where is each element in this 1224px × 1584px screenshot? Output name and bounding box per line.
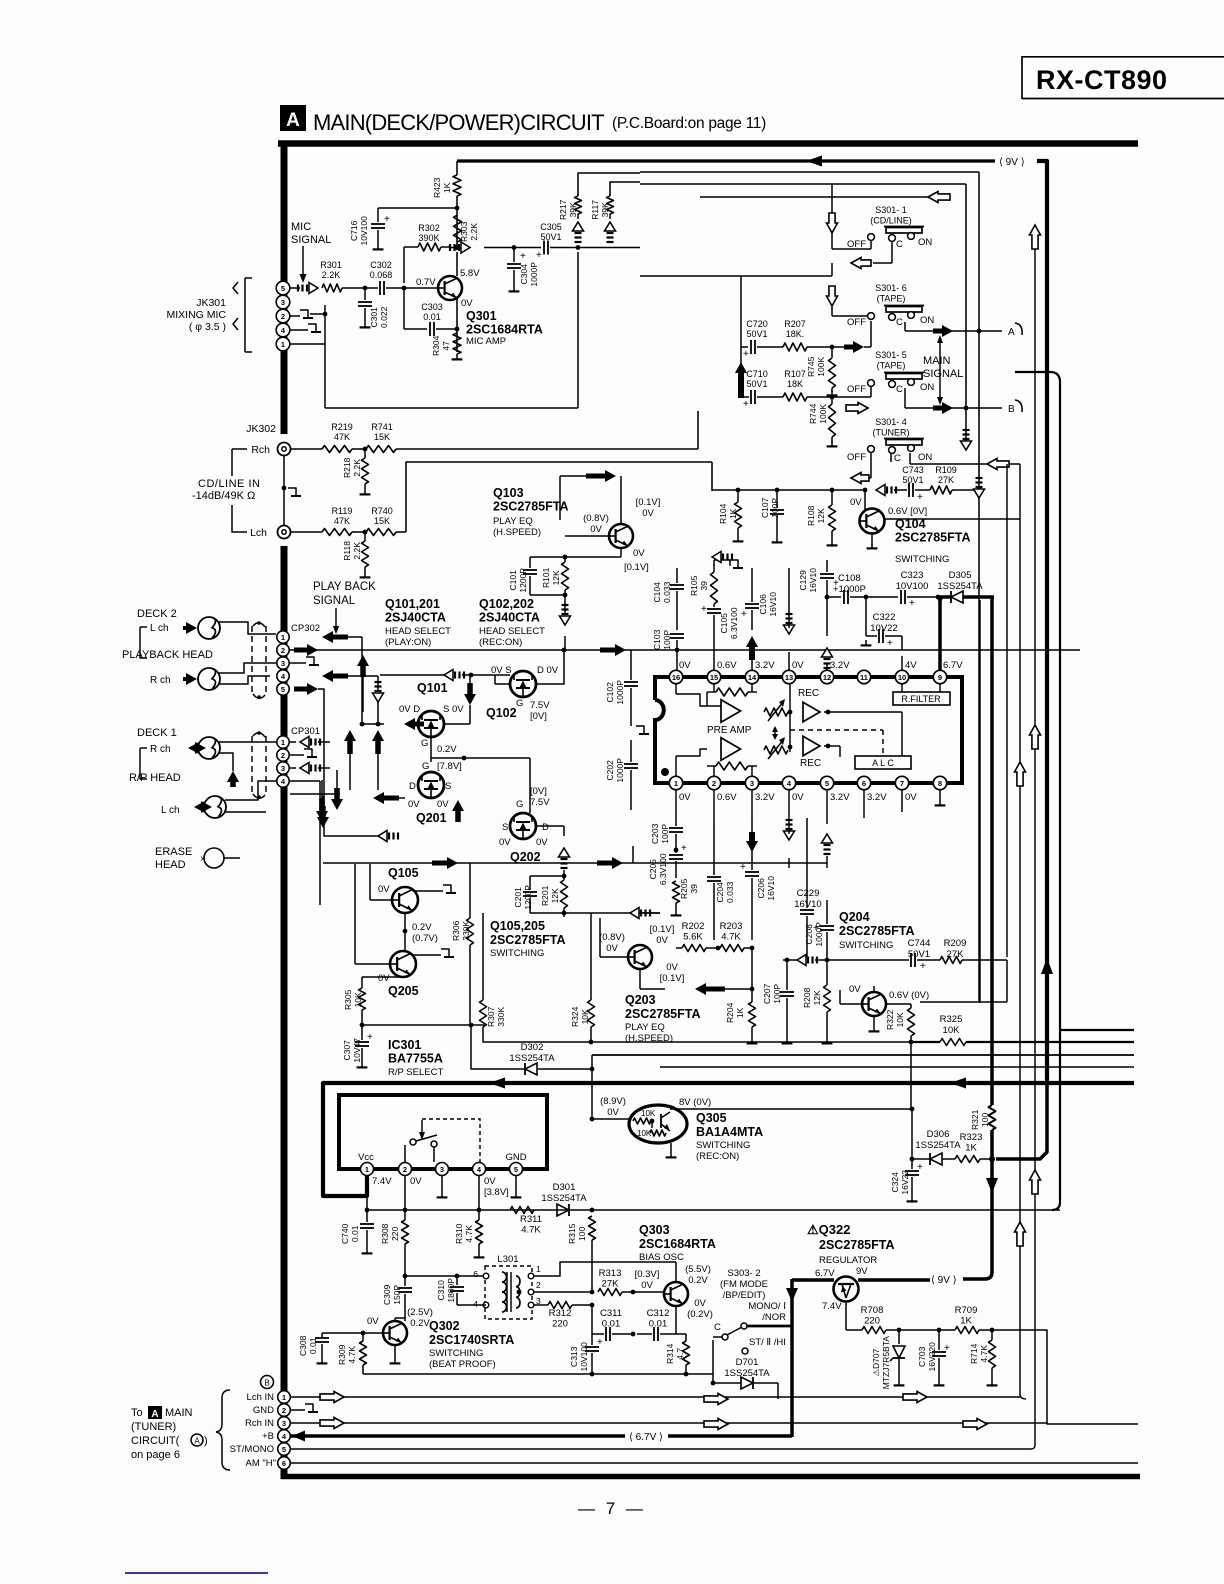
svg-text:10K: 10K [895, 1012, 905, 1027]
capacitor C311 0.01 [592, 1308, 635, 1341]
bus x1020 vertical [1020, 464, 1026, 1399]
thick arrow up head sel [357, 655, 369, 712]
svg-text:0.2V: 0.2V [688, 1275, 708, 1286]
resistor 10K lower q305 [650, 1121, 666, 1136]
svg-text:C303: C303 [421, 302, 443, 312]
svg-text:PLAY EQ: PLAY EQ [625, 1022, 665, 1033]
resistor R209 27K [940, 938, 1007, 999]
svg-text:1K: 1K [960, 1316, 972, 1327]
hatched arrow up R117 [605, 222, 616, 242]
thick arrow down c206 [746, 832, 758, 852]
node Q301 collector [455, 245, 460, 250]
wire pin2 down [403, 1176, 408, 1220]
wire d701 right [777, 1383, 779, 1399]
svg-text:MTZJ7R5BTA: MTZJ7R5BTA [881, 1336, 891, 1390]
svg-text:R744: R744 [808, 403, 818, 424]
label Q305 block [696, 1111, 763, 1162]
svg-text:8V (0V): 8V (0V) [679, 1097, 711, 1108]
leaf switch arrow [419, 1120, 425, 1140]
svg-text:C322: C322 [873, 612, 896, 623]
svg-text:Q101,201: Q101,201 [385, 597, 440, 611]
wire S301-4 C drop [890, 453, 892, 462]
wire Lch up to row462 [406, 462, 712, 532]
rec amp upper [803, 702, 820, 722]
svg-text:C301: C301 [369, 307, 379, 328]
switch box pin 4 [473, 1163, 486, 1176]
svg-text:OFF: OFF [847, 239, 866, 250]
IC302 pin 7 [895, 776, 908, 789]
wire A row [905, 322, 1002, 331]
wire x912 down [910, 1109, 915, 1161]
svg-text:1K: 1K [965, 1143, 977, 1154]
label 0.3V [635, 1269, 660, 1291]
svg-text:Q103: Q103 [493, 486, 524, 500]
node q201 gate [431, 756, 530, 761]
svg-text:(8.9V): (8.9V) [600, 1096, 626, 1107]
svg-text:+: + [520, 251, 526, 262]
arrow mic signal down [300, 246, 307, 283]
svg-text:13: 13 [785, 673, 793, 682]
resistor R306 330K [451, 875, 474, 1025]
svg-text:R708: R708 [861, 1305, 884, 1316]
svg-text:0.022: 0.022 [379, 306, 389, 328]
node B junction [964, 406, 969, 411]
bus 9V top horizontal [457, 159, 995, 162]
svg-text:3: 3 [750, 779, 754, 788]
svg-text:2.2K: 2.2K [352, 542, 362, 560]
svg-text:C104: C104 [652, 582, 662, 603]
wire q102 drain up [536, 648, 566, 684]
capacitor C105 6.3V100 [701, 604, 739, 670]
wire x980 long [916, 600, 980, 1003]
wire x470 to row863 [469, 863, 471, 875]
svg-text:+: + [536, 250, 542, 261]
hatched arrow down R101 [560, 600, 571, 648]
svg-text:R745: R745 [806, 356, 816, 377]
svg-text:SWITCHING: SWITCHING [429, 1348, 483, 1359]
svg-text:2: 2 [403, 1165, 407, 1174]
svg-text:Q105,205: Q105,205 [490, 919, 545, 933]
wire row 1056 [592, 1054, 1134, 1056]
svg-text:R ch: R ch [150, 744, 171, 755]
svg-text:SIGNAL: SIGNAL [291, 234, 331, 246]
wires head2R [219, 663, 276, 684]
svg-text:C204: C204 [715, 882, 725, 903]
svg-text:R217: R217 [558, 199, 568, 220]
fet Q201 [418, 772, 444, 798]
capacitor C102 1000P [605, 650, 649, 734]
capacitor C310 1800P [436, 1276, 486, 1305]
wire row 863 right [632, 846, 634, 863]
label 0.8V Q103 [583, 513, 609, 535]
svg-text:4.7K: 4.7K [464, 1225, 474, 1243]
svg-text:(TAPE): (TAPE) [877, 361, 906, 371]
svg-text:(FM MODE: (FM MODE [720, 1279, 768, 1290]
connector CP302 pin2 [277, 644, 289, 656]
open arrow up x1020 mid [1015, 762, 1026, 786]
svg-text:4.7K: 4.7K [347, 1346, 357, 1364]
label CP302 [291, 623, 320, 634]
svg-text:L301: L301 [497, 1254, 518, 1265]
label Q202 [510, 850, 541, 864]
svg-text:50V1: 50V1 [746, 379, 767, 389]
svg-text:+: + [743, 349, 749, 360]
wire mic return vertical [577, 252, 579, 408]
svg-text:0V S: 0V S [491, 665, 512, 676]
label 10K lower [637, 1129, 652, 1138]
node q202 [0, 0, 1, 1]
solid arrow row863 a [432, 857, 458, 869]
svg-text:0V: 0V [499, 837, 511, 848]
svg-text:+: + [909, 598, 915, 609]
bus x979 vertical [978, 172, 980, 1002]
svg-text:3.2V: 3.2V [755, 792, 775, 803]
resistor R207 18K [757, 319, 844, 351]
hatched arrow up x827b [822, 818, 833, 868]
label 9V top [999, 157, 1025, 168]
svg-text:0.033: 0.033 [725, 881, 735, 903]
frame left edge upper [281, 141, 288, 434]
svg-text:6.3V100: 6.3V100 [729, 607, 739, 639]
svg-text:R202: R202 [682, 921, 705, 932]
label Q201 [416, 811, 447, 825]
label Vcc [358, 1152, 374, 1163]
resistor R104 1K [718, 488, 743, 542]
svg-text:C308: C308 [298, 1335, 308, 1356]
diode D305 [937, 570, 994, 603]
hatched arrow q202 row [352, 831, 516, 842]
svg-text:(REC:ON): (REC:ON) [479, 637, 522, 648]
svg-text:A: A [1008, 327, 1015, 338]
svg-text:5.8V: 5.8V [460, 268, 480, 279]
svg-text:R313: R313 [599, 1268, 622, 1279]
wire r306 row right [471, 1024, 485, 1026]
wire C101 R101 top [530, 555, 620, 562]
svg-text:0.6V: 0.6V [717, 792, 737, 803]
svg-text:(H.SPEED): (H.SPEED) [493, 527, 541, 538]
svg-text:R321: R321 [970, 1109, 980, 1130]
node D305 left [936, 595, 941, 600]
node Q301 emitter [455, 327, 460, 332]
label CP301 [291, 726, 320, 737]
node r305 bottom [360, 1023, 474, 1028]
svg-text:R304: R304 [431, 335, 441, 356]
wire JK302 shield [282, 456, 301, 525]
voltage label pin bottom 752 [755, 792, 775, 803]
svg-text:14: 14 [748, 673, 757, 682]
voltage label pin top 940 [943, 660, 963, 671]
pot upper [764, 699, 788, 721]
svg-text:ERASE: ERASE [155, 846, 192, 858]
zener D707 [871, 1330, 905, 1389]
transistor q305 inner [661, 1112, 670, 1131]
svg-text:C310: C310 [436, 1280, 446, 1301]
svg-text:10V100: 10V100 [359, 216, 369, 246]
svg-text:D306: D306 [927, 1129, 950, 1140]
svg-text:JK301: JK301 [196, 297, 226, 309]
svg-text:B: B [264, 1379, 269, 1388]
svg-text:R324: R324 [570, 1006, 580, 1027]
label IC301 [388, 1038, 443, 1078]
transformer center tap dot [517, 1290, 522, 1295]
svg-text:SWITCHING: SWITCHING [895, 554, 949, 565]
diode D302 [471, 1025, 592, 1075]
hatched arrow cp301-1 [290, 737, 330, 748]
solid arrow row863 b [597, 857, 623, 869]
svg-text:L ch: L ch [161, 805, 180, 816]
capacitor C207 100P [762, 958, 794, 1044]
voltage label pin bottom 827 [830, 792, 850, 803]
resistor R323 1K [955, 1132, 990, 1163]
erase head [200, 848, 240, 868]
svg-text:R311: R311 [520, 1214, 542, 1225]
bus 9V join [989, 1080, 1047, 1272]
transformer terminal 3 [528, 1296, 541, 1308]
wire S301-1 feed drop [832, 184, 871, 249]
bus x1060 vertical [1015, 372, 1060, 1210]
label DECK 1 [137, 727, 177, 739]
svg-text:[0V]: [0V] [530, 711, 547, 722]
wire cp301 pin4 [290, 781, 320, 905]
IC302 pin 14 [745, 670, 758, 683]
svg-text:Q203: Q203 [625, 993, 656, 1007]
svg-text:Q205: Q205 [388, 984, 419, 998]
svg-text:/NOR: /NOR [762, 1312, 786, 1323]
svg-text:+: + [741, 609, 747, 620]
connector CP301 pin1 [277, 736, 289, 748]
capacitor C716 10V100 [349, 208, 457, 249]
solid arrow play eq [560, 470, 616, 520]
svg-text:C716: C716 [349, 220, 359, 241]
resistor R322 10K [885, 1008, 915, 1042]
svg-text:R310: R310 [454, 1223, 464, 1244]
node C108 right [864, 595, 898, 600]
wire Q103 base [565, 535, 609, 537]
capacitor C201 1200P [513, 876, 537, 913]
svg-text:10: 10 [898, 673, 906, 682]
svg-text:R312: R312 [549, 1308, 572, 1319]
svg-text:A: A [194, 1437, 200, 1446]
ground q305 [666, 1143, 677, 1157]
svg-text:100P: 100P [662, 630, 672, 650]
open arrow up x1035 mid [1030, 725, 1041, 749]
wire q102 source [495, 675, 510, 684]
wire y172 top [640, 171, 979, 173]
capacitor C743 50V1 [894, 465, 924, 503]
voltage label pin bottom 676 [679, 792, 691, 803]
page header box for model number [1022, 56, 1224, 99]
svg-text:27K: 27K [602, 1279, 620, 1290]
svg-text:47: 47 [441, 341, 451, 351]
hatched arrow up q202d [559, 826, 570, 868]
wire S301-4 off drop [851, 453, 871, 484]
hatched arrow q101 gate [373, 670, 471, 725]
svg-text:B: B [1008, 404, 1015, 415]
svg-text:C323: C323 [901, 570, 924, 581]
svg-text:SIGNAL: SIGNAL [313, 595, 356, 607]
svg-text:+: + [813, 923, 819, 934]
resistor R202 5.6K [676, 921, 718, 952]
label Q322 block [807, 1222, 895, 1266]
node B [1008, 400, 1022, 415]
jack JK301 plug symbol [233, 278, 252, 352]
thick arrow up q201 [452, 800, 464, 822]
wire row462 corner [711, 462, 713, 491]
open arrow left S301-1 C [832, 258, 871, 277]
svg-text:ST/ Ⅱ /HI: ST/ Ⅱ /HI [749, 1337, 786, 1348]
svg-text:12K: 12K [550, 888, 560, 903]
svg-text:S 0V: S 0V [443, 704, 464, 715]
arrowhead down 9V low [986, 1178, 998, 1193]
fet Q101 [418, 711, 444, 737]
svg-text:/BP/EDIT): /BP/EDIT) [723, 1290, 766, 1301]
label R/P HEAD [129, 772, 181, 784]
wire osc bottom rail [363, 1372, 713, 1377]
svg-text:4: 4 [473, 1299, 478, 1309]
svg-text:S: S [502, 822, 508, 833]
transistor Q103 [609, 524, 633, 548]
node C304 top [512, 245, 517, 250]
resistor R219 47K [291, 422, 364, 453]
label Q104 [895, 517, 971, 565]
switch box pin 3 [436, 1163, 449, 1176]
wire mic line to switches [578, 247, 640, 249]
solid arrow head2L [183, 622, 197, 634]
svg-text:+: + [597, 1337, 603, 1348]
resistor R108 12K [806, 488, 837, 546]
svg-text:R118: R118 [342, 541, 352, 561]
main signal span arrow [937, 335, 943, 405]
svg-text:R208: R208 [802, 987, 812, 1008]
wire q305 base feed [590, 1117, 629, 1122]
svg-text:4V: 4V [905, 660, 917, 671]
bus 6.7V corner down [790, 1279, 794, 1437]
svg-text:100P: 100P [660, 824, 670, 844]
resistor R310 4.7K [454, 1220, 484, 1257]
svg-text:(5.5V): (5.5V) [685, 1264, 711, 1275]
svg-text:R101: R101 [541, 567, 551, 588]
label 7.4V q322 [822, 1301, 842, 1312]
svg-text:MIXING MIC: MIXING MIC [167, 309, 227, 321]
connector CP302 pin1 [277, 631, 289, 643]
svg-text:CIRCUIT(: CIRCUIT( [131, 1435, 180, 1447]
svg-text:(0.7V): (0.7V) [412, 933, 438, 944]
svg-text:3: 3 [281, 659, 285, 668]
svg-text:2SC1684RTA: 2SC1684RTA [639, 1237, 716, 1251]
svg-text:6.7V: 6.7V [815, 1268, 835, 1279]
svg-text:A: A [286, 110, 300, 131]
svg-text:2SJ40CTA: 2SJ40CTA [385, 611, 446, 625]
wire pin1 stub [366, 1176, 368, 1210]
resistor R301 2.2K [320, 260, 342, 292]
svg-text:C101: C101 [508, 570, 518, 591]
label MAIN SIGNAL [923, 355, 963, 380]
svg-text:R709: R709 [955, 1305, 978, 1316]
IC302 pin 4 [782, 776, 795, 789]
hatched arrow row960 [783, 955, 905, 966]
wire q322 emitter [846, 1301, 862, 1330]
bus x966 vertical [965, 184, 967, 408]
resistor R105 39 [689, 560, 743, 604]
label MONO/NOR [748, 1301, 786, 1323]
svg-text:R308: R308 [380, 1223, 390, 1244]
label 0V 3.8V pin4 [484, 1176, 509, 1198]
svg-text:7.4V: 7.4V [372, 1176, 392, 1187]
svg-text:R203: R203 [720, 921, 743, 932]
IC302 pin 16 [669, 670, 682, 683]
node R423 bottom [455, 206, 460, 211]
label Q102,202 [479, 597, 545, 648]
svg-text:9V: 9V [856, 1266, 868, 1277]
IC302 pin 11 [857, 670, 870, 683]
svg-text:0V: 0V [437, 799, 449, 810]
svg-text:0.01: 0.01 [308, 1337, 318, 1354]
wire L301-6 row [403, 1274, 483, 1279]
svg-text:+: + [920, 961, 926, 972]
resistor R708 220 [861, 1305, 939, 1334]
ground q204 [869, 1016, 880, 1031]
svg-text:OFF: OFF [847, 384, 866, 395]
transformer terminal 1 [528, 1264, 541, 1279]
capacitor C107 100P [760, 488, 784, 543]
svg-text:R109: R109 [935, 465, 957, 475]
capacitor C301 0.022 [358, 288, 389, 328]
hatched arrow down x789b [784, 818, 795, 868]
svg-text:3.2V: 3.2V [867, 792, 887, 803]
svg-text:(2.5V): (2.5V) [407, 1307, 433, 1318]
svg-text:10K: 10K [641, 1109, 656, 1118]
node c201 r201 bot [530, 908, 566, 917]
svg-text:C: C [896, 384, 903, 395]
svg-text:C: C [896, 317, 903, 328]
resistor R305 10K [343, 977, 403, 1025]
ground pin5 [511, 1176, 522, 1197]
label 8.9V q305 [600, 1096, 626, 1118]
svg-text:SIGNAL: SIGNAL [923, 368, 963, 380]
svg-text:HEAD SELECT: HEAD SELECT [385, 626, 451, 637]
transformer L301 label [497, 1254, 518, 1265]
connector pin5 bottom [278, 1443, 291, 1456]
arrowhead pin4 [292, 1431, 305, 1442]
svg-text:10V22: 10V22 [870, 623, 897, 634]
resistor R321 100 [970, 1105, 996, 1130]
svg-text:G: G [516, 698, 523, 709]
svg-text:Q202: Q202 [510, 850, 541, 864]
node c201 r201 top [530, 870, 566, 880]
svg-text:2: 2 [536, 1280, 541, 1290]
svg-text:3: 3 [282, 1419, 286, 1428]
thick arrow down left2 [331, 770, 343, 810]
svg-text:0.01: 0.01 [423, 312, 441, 322]
wire C101 R101 bottom [530, 590, 567, 600]
svg-text:(REC:ON): (REC:ON) [696, 1151, 739, 1162]
svg-text:+: + [887, 638, 893, 649]
svg-text:×: × [200, 854, 206, 865]
svg-text:C703: C703 [917, 1346, 927, 1367]
open arrow B row [846, 403, 868, 414]
svg-text:+B: +B [262, 1431, 274, 1442]
svg-text:C206: C206 [756, 878, 766, 899]
IC302 pin 8 [933, 776, 946, 789]
svg-text:Rch IN: Rch IN [245, 1418, 274, 1429]
resistor R314 4.7 [665, 1334, 690, 1374]
resistor R744 100K [808, 397, 837, 446]
node R207 right [830, 345, 835, 350]
switch S301-5 (TAPE) [847, 350, 934, 395]
rec amp lower [803, 736, 820, 756]
wire q204 collector [874, 986, 911, 1008]
dashed ALC line [790, 730, 883, 756]
